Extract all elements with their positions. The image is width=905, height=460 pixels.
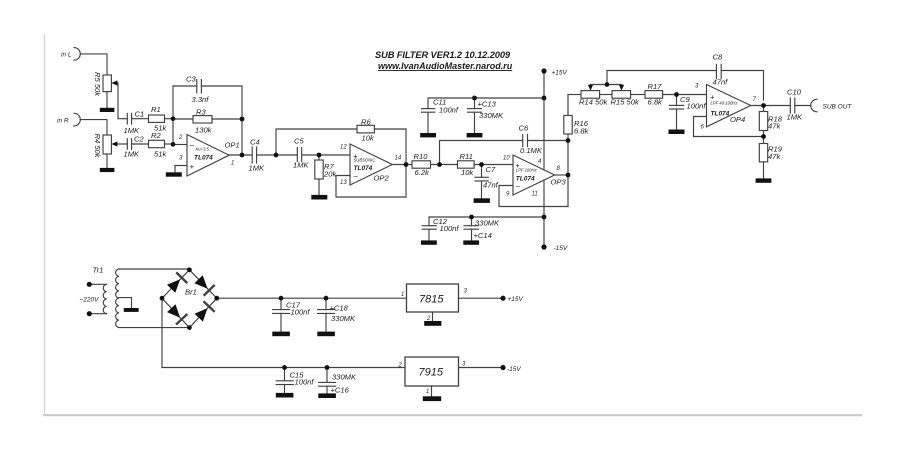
svg-text:+C18: +C18 (330, 304, 349, 313)
svg-text:1MK: 1MK (293, 161, 310, 170)
capacitor C4 (252, 147, 297, 163)
svg-text:3: 3 (464, 288, 468, 294)
svg-text:www.IvanAudioMaster.narod.ru: www.IvanAudioMaster.narod.ru (378, 61, 513, 71)
node -15V output terminal (500, 365, 505, 370)
diode Br1 bottom-right (195, 302, 214, 322)
ground (311, 195, 327, 200)
bridge Br1 diamond (162, 270, 217, 328)
svg-text:10k: 10k (362, 134, 375, 143)
ground (166, 172, 182, 176)
node in R (74, 113, 80, 126)
resistor R2 (149, 140, 174, 147)
svg-text:7815: 7815 (419, 293, 444, 305)
capacitor C13 (468, 98, 482, 133)
svg-text:47nf: 47nf (483, 181, 499, 190)
svg-text:1: 1 (426, 389, 429, 395)
regulator 7915 (405, 357, 503, 396)
op-amp OP3 (513, 155, 555, 195)
wire C3 top loop (173, 85, 197, 87)
wire feedback right column (241, 86, 243, 155)
ground (317, 332, 335, 337)
svg-text:R5 50k: R5 50k (93, 72, 102, 97)
svg-text:+15V: +15V (508, 296, 524, 303)
svg-text:3: 3 (695, 84, 699, 90)
transformer Tr1 primary (89, 284, 106, 313)
capacitor C15 (276, 368, 293, 393)
svg-text:3: 3 (462, 361, 466, 367)
svg-text:C1: C1 (135, 110, 145, 119)
svg-text:4: 4 (538, 159, 542, 165)
svg-text:9: 9 (506, 191, 510, 197)
transformer Tr1 secondary (116, 269, 119, 327)
resistor R6 (357, 125, 406, 133)
svg-text:3: 3 (179, 156, 183, 162)
wire R14 row (568, 94, 581, 96)
wire OP4 output (751, 105, 791, 107)
potentiometer R4 (103, 135, 119, 168)
svg-text:R6: R6 (361, 118, 371, 127)
svg-text:100nf: 100nf (440, 224, 460, 233)
svg-text:6.8k: 6.8k (574, 126, 590, 135)
svg-text:+: + (710, 93, 715, 102)
svg-text:Tr1: Tr1 (93, 265, 104, 274)
svg-text:47k: 47k (768, 152, 781, 161)
svg-text:330MK: 330MK (332, 372, 357, 381)
wire secondary top (119, 268, 189, 270)
wire R6 loop up (276, 129, 357, 155)
wire wiper to top row (607, 71, 716, 85)
svg-text:330MK: 330MK (475, 219, 500, 228)
svg-text:+C13: +C13 (478, 100, 497, 109)
svg-text:OP3: OP3 (551, 178, 567, 187)
svg-text:R4 50k: R4 50k (93, 134, 102, 159)
node +15V rail (543, 71, 545, 247)
svg-text:–: – (515, 182, 521, 191)
svg-text:+: + (190, 162, 195, 171)
svg-text:R11: R11 (460, 152, 473, 161)
svg-text:R17: R17 (648, 82, 663, 91)
svg-text:LPF 40-100Hz: LPF 40-100Hz (711, 101, 739, 106)
node SUB OUT jack (811, 99, 817, 112)
svg-text:C7: C7 (486, 165, 496, 174)
svg-text:OP2: OP2 (374, 174, 390, 183)
capacitor C6 (523, 134, 568, 146)
svg-text:47k: 47k (768, 122, 781, 131)
wire (80, 120, 107, 135)
resistor R11 (458, 161, 514, 168)
node in L (74, 48, 80, 61)
svg-text:R1: R1 (151, 105, 161, 114)
svg-text:TL074: TL074 (711, 110, 730, 117)
capacitor C1 (124, 113, 149, 124)
diode Br1 bottom-left (167, 304, 186, 324)
wire C11 C13 row (428, 97, 544, 99)
svg-text:330MK: 330MK (331, 314, 356, 323)
capacitor C2 (124, 139, 149, 150)
wire OP2 pin13 feedback (336, 176, 406, 198)
capacitor C16 (319, 368, 336, 394)
svg-text:1MK: 1MK (249, 163, 266, 172)
resistor R18 (759, 106, 767, 137)
svg-text:47nf: 47nf (713, 78, 729, 87)
capacitor C8 (716, 64, 763, 100)
svg-text:7915: 7915 (419, 367, 444, 379)
diode Br1 top-right (194, 275, 213, 295)
svg-text:in R: in R (57, 117, 69, 124)
svg-text:+: + (353, 152, 358, 161)
svg-text:2: 2 (398, 362, 403, 368)
wire OP1 input pin3 (175, 166, 187, 173)
bridge node dots (187, 267, 192, 272)
wire OP4 pin6 feedback (694, 117, 707, 137)
svg-text:Br1: Br1 (185, 287, 197, 296)
svg-text:8: 8 (557, 166, 561, 172)
wire junction column (172, 86, 174, 145)
node -15V terminal bottom (541, 244, 546, 249)
svg-text:+C14: +C14 (474, 231, 492, 240)
svg-text:1: 1 (231, 160, 234, 166)
wire wiper link (591, 84, 622, 86)
wire OP3 right column (567, 141, 569, 207)
wire R4 wiper (119, 143, 124, 145)
svg-text:C10: C10 (787, 87, 802, 96)
ground (424, 321, 441, 326)
svg-text:C6: C6 (519, 124, 529, 133)
capacitor C10 (790, 98, 810, 113)
wire OP1 input pin2 (173, 144, 187, 146)
svg-text:13: 13 (340, 180, 347, 186)
svg-text:12: 12 (340, 145, 347, 151)
svg-text:C8: C8 (713, 53, 723, 62)
resistor R10 (412, 161, 458, 168)
ground (318, 393, 336, 398)
svg-text:6.8k: 6.8k (648, 98, 664, 107)
resistor R3 (193, 116, 242, 123)
border frame (44, 35, 46, 414)
wire bridge minus column (161, 298, 163, 367)
svg-text:OP4: OP4 (730, 115, 745, 124)
capacitor C5 (297, 148, 350, 162)
svg-text:330MK: 330MK (479, 111, 504, 120)
supply row dots (279, 296, 284, 301)
ground (463, 240, 479, 244)
svg-text:51k: 51k (154, 150, 167, 159)
wire -15 supply row (162, 367, 405, 369)
svg-text:130k: 130k (195, 125, 213, 134)
svg-text:–: – (353, 171, 359, 180)
wire OP3 pin9 feedback (499, 186, 568, 207)
wire OP2 output (392, 164, 412, 166)
svg-text:6: 6 (701, 125, 705, 131)
wire (80, 54, 107, 75)
svg-text:2: 2 (426, 316, 431, 322)
svg-text:100nf: 100nf (687, 101, 707, 110)
ground (124, 308, 139, 312)
resistor R19 (759, 137, 767, 179)
svg-text:0.1MK: 0.1MK (520, 146, 543, 155)
ground (474, 198, 490, 203)
svg-text:C2: C2 (134, 134, 144, 143)
wire R6 loop down / OP2 output column (405, 129, 407, 197)
svg-text:3.3nf: 3.3nf (192, 95, 210, 104)
capacitor C12 (422, 217, 436, 240)
resistor R7 (315, 155, 323, 195)
ground (421, 240, 437, 244)
wire +15 supply row (217, 297, 407, 299)
svg-text:Ku=3.5: Ku=3.5 (196, 147, 210, 152)
svg-text:100nf: 100nf (291, 308, 311, 317)
svg-text:–: – (189, 141, 195, 150)
ground (276, 393, 294, 398)
resistor R16 (564, 95, 572, 141)
ground (420, 133, 436, 137)
svg-text:SUB OUT: SUB OUT (823, 104, 853, 111)
junction dots (171, 116, 176, 121)
svg-text:R10: R10 (414, 152, 429, 161)
svg-text:2: 2 (178, 135, 183, 141)
ground (467, 133, 483, 137)
svg-text:20k: 20k (323, 170, 337, 179)
svg-text:+: + (515, 161, 520, 170)
op-amp OP1 (187, 135, 229, 177)
node +15V output terminal (500, 296, 505, 301)
svg-text:C3: C3 (186, 75, 196, 84)
capacitor C17 (273, 298, 290, 331)
wire R5 wiper (118, 83, 124, 119)
regulator 7815 (407, 284, 504, 321)
capacitor C9 (670, 95, 684, 130)
potentiometer R15 (612, 85, 645, 99)
svg-text:6.2k: 6.2k (415, 168, 431, 177)
svg-text:SUB FILTER VER1.2 10.12.2009: SUB FILTER VER1.2 10.12.2009 (375, 50, 511, 60)
svg-text:R14 50k: R14 50k (579, 98, 608, 107)
ground (272, 332, 290, 337)
svg-text:7: 7 (753, 97, 757, 103)
capacitor C7 (475, 165, 488, 199)
capacitor C3 (197, 80, 242, 94)
resistor R1 (149, 115, 174, 122)
svg-text:-15V: -15V (554, 245, 568, 252)
wire C12 C14 row (429, 216, 544, 218)
node ~220V terminals (87, 282, 92, 287)
svg-text:10k: 10k (461, 168, 474, 177)
svg-text:10: 10 (503, 156, 510, 162)
svg-text:OP1: OP1 (225, 141, 240, 150)
svg-text:+C16: +C16 (331, 386, 350, 395)
ground (100, 108, 115, 112)
ground (669, 130, 685, 135)
svg-text:R3: R3 (196, 108, 206, 117)
capacitor C14 (464, 217, 479, 240)
wire R19 feedback row (694, 136, 764, 138)
svg-text:14: 14 (395, 155, 402, 161)
svg-text:C5: C5 (294, 137, 304, 146)
svg-text:11: 11 (532, 192, 538, 198)
wire C6 row (440, 141, 523, 165)
svg-text:1: 1 (401, 292, 404, 298)
svg-text:R2: R2 (151, 131, 161, 140)
svg-text:+15V: +15V (552, 70, 568, 77)
wire OP3 output (555, 174, 568, 176)
svg-text:100nf: 100nf (295, 378, 315, 387)
diode Br1 top-left (167, 273, 186, 293)
svg-text:1MK: 1MK (787, 113, 804, 122)
svg-text:C4: C4 (250, 138, 260, 147)
capacitor C11 (422, 98, 435, 133)
resistor R17 (645, 91, 707, 99)
op-amp OP2 (350, 144, 392, 185)
svg-text:1MK: 1MK (124, 150, 141, 159)
op-amp OP4 (707, 85, 751, 127)
ground (100, 168, 115, 172)
svg-text:-15V: -15V (507, 366, 521, 373)
potentiometer R14 (581, 85, 612, 99)
capacitor C18 (318, 298, 335, 331)
svg-text:R15 50k: R15 50k (611, 98, 640, 107)
wire OP1 output (229, 154, 252, 156)
svg-text:~220V: ~220V (80, 296, 100, 303)
wire R3 row (173, 118, 193, 120)
wire secondary bottom (119, 327, 189, 329)
svg-text:100nf: 100nf (439, 106, 459, 115)
node +15V terminal top (541, 68, 546, 73)
svg-text:TL074: TL074 (194, 155, 213, 162)
wire center tap (119, 298, 132, 308)
ground (756, 178, 772, 182)
ground (423, 396, 441, 401)
svg-text:in L: in L (61, 52, 72, 59)
potentiometer R5 (103, 75, 118, 108)
